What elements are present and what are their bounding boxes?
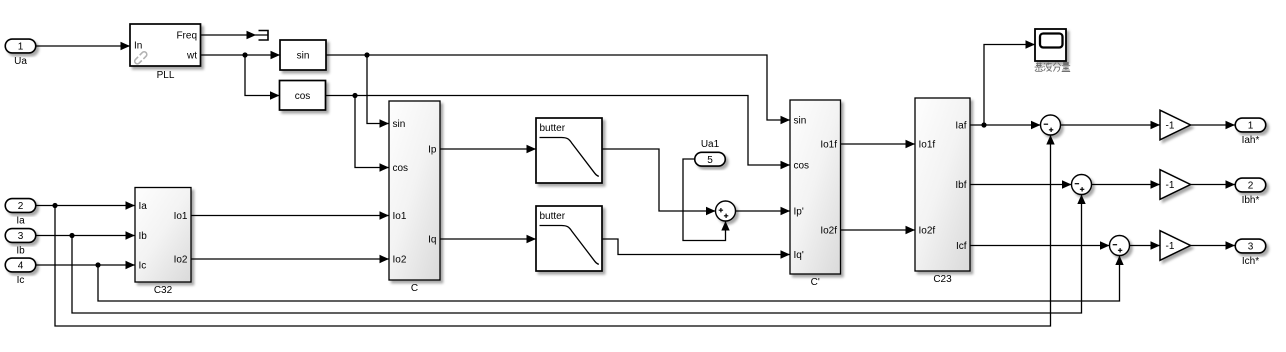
svg-text:5: 5: [707, 155, 713, 166]
svg-text:Ua: Ua: [14, 56, 27, 67]
svg-text:Freq: Freq: [176, 31, 197, 42]
subsystem C': [790, 100, 841, 274]
junction Ic branch: [95, 262, 100, 267]
gain gain2 (-1): [1160, 170, 1191, 200]
svg-text:Io2f: Io2f: [820, 226, 837, 237]
PLL block: [130, 24, 201, 66]
svg-text:Ip': Ip': [794, 207, 804, 218]
wire Ia feedback to sum1: [55, 135, 1051, 326]
svg-text:sin: sin: [297, 51, 310, 62]
wire sumA to Cp Ip: [736, 210, 791, 212]
junction Ia branch: [52, 203, 57, 208]
butter filter 2: [536, 206, 602, 271]
wire Ua to PLL: [36, 45, 131, 47]
output port 3 (Ich*): [1235, 239, 1266, 253]
wire butter2 to Cp Iq: [602, 239, 790, 255]
wire Ib to C32: [36, 235, 135, 237]
junction cos branch: [352, 93, 357, 98]
svg-text:C: C: [411, 283, 418, 294]
svg-text:cos: cos: [794, 161, 810, 172]
svg-text:Iah*: Iah*: [1242, 135, 1260, 146]
svg-text:4: 4: [18, 261, 24, 272]
subsystem C32: [135, 188, 191, 283]
wire C23 Ibf to sum2: [970, 184, 1072, 186]
gain gain1 (-1): [1160, 110, 1191, 140]
gain gain3 (-1): [1160, 231, 1191, 261]
svg-text:3: 3: [18, 231, 24, 242]
wire sum2 to gain2: [1092, 184, 1161, 186]
wire PLL Freq to terminator: [201, 34, 268, 36]
wire PLL wt to sin: [201, 54, 281, 56]
wire Ib feedback to sum2: [72, 195, 1082, 314]
wire C32 Io2 to C: [191, 258, 389, 260]
svg-text:Iq: Iq: [428, 235, 436, 246]
wire C23 Iaf to sum1: [970, 124, 1041, 126]
svg-text:Ibf: Ibf: [955, 180, 966, 191]
wire wt branch to cos: [245, 55, 280, 96]
input port 1 (Ua): [5, 39, 36, 53]
junction sin branch: [364, 52, 369, 57]
svg-text:cos: cos: [295, 91, 311, 102]
wire Ic feedback to sum3: [98, 256, 1120, 302]
svg-text:PLL: PLL: [157, 70, 175, 81]
svg-text:Io1: Io1: [174, 211, 188, 222]
sum block sum3: [1110, 236, 1130, 256]
wire C Iq to butter2: [440, 238, 536, 240]
svg-text:In: In: [134, 40, 142, 51]
svg-text:-1: -1: [1166, 121, 1175, 132]
subsystem C: [389, 101, 440, 280]
wire gain1 to out1: [1191, 124, 1236, 126]
wire Cp Io1f to C23: [841, 143, 916, 145]
subsystem C23: [915, 98, 970, 271]
svg-text:C23: C23: [933, 274, 952, 285]
junction Iaf branch: [981, 122, 986, 127]
svg-text:1: 1: [1248, 121, 1254, 132]
wire butter1 to sumA: [602, 149, 716, 211]
wire gain3 to out3: [1191, 245, 1236, 247]
svg-text:cos: cos: [393, 163, 409, 174]
input port 5 (Ua1): [695, 152, 726, 166]
output port 2 (Ibh*): [1235, 178, 1266, 192]
svg-text:Ia: Ia: [16, 216, 25, 227]
svg-text:Io1f: Io1f: [919, 140, 936, 151]
input port 4 (Ic): [5, 258, 36, 272]
svg-text:Ic: Ic: [17, 275, 25, 286]
butter filter 1: [536, 118, 602, 183]
sum block sum2: [1072, 175, 1092, 195]
wire sin branch to C sin: [367, 55, 389, 124]
svg-text:Ib: Ib: [16, 246, 25, 257]
wire C Ip to butter1: [440, 148, 536, 150]
junction wt branch: [242, 52, 247, 57]
scope block: [1035, 29, 1066, 61]
svg-text:butter: butter: [540, 123, 566, 134]
junction Ib branch: [69, 233, 74, 238]
svg-text:Icf: Icf: [956, 241, 967, 252]
svg-text:sin: sin: [393, 119, 406, 130]
broken link icon: [135, 52, 147, 64]
wire Iaf branch to scope: [984, 45, 1035, 126]
svg-text:C': C': [811, 277, 820, 288]
svg-text:Ia: Ia: [139, 201, 148, 212]
svg-text:Io1f: Io1f: [820, 140, 837, 151]
svg-text:wt: wt: [186, 51, 197, 62]
svg-text:Ibh*: Ibh*: [1242, 195, 1260, 206]
wire C32 Io1 to C: [191, 215, 389, 217]
wire Ua1 to sumA: [683, 159, 726, 241]
cos function block: [280, 81, 326, 111]
wire sin out to Cp sin: [326, 55, 790, 120]
svg-text:Ip: Ip: [428, 145, 437, 156]
svg-text:Ua1: Ua1: [701, 139, 720, 150]
svg-text:Iaf: Iaf: [955, 121, 966, 132]
wire cos branch to C cos: [355, 96, 389, 168]
wire gain2 to out2: [1191, 184, 1236, 186]
svg-text:-1: -1: [1166, 241, 1175, 252]
svg-text:Io2: Io2: [393, 255, 407, 266]
wire Cp Io2f to C23: [841, 229, 916, 231]
wire C23 Icf to sum3: [970, 245, 1110, 247]
svg-text:Iq': Iq': [794, 250, 804, 261]
sum block sumA: [716, 201, 736, 221]
output port 1 (Iah*): [1235, 118, 1266, 132]
input port 3 (Ib): [5, 229, 36, 243]
sum block sum1: [1041, 115, 1061, 135]
svg-text:Ich*: Ich*: [1242, 256, 1259, 267]
wire sum1 to gain1: [1061, 124, 1161, 126]
svg-text:Io1: Io1: [393, 211, 407, 222]
svg-text:2: 2: [1248, 181, 1254, 192]
input port 2 (Ia): [5, 199, 36, 213]
svg-text:sin: sin: [794, 116, 807, 127]
svg-text:1: 1: [18, 42, 24, 53]
wire Ic to C32: [36, 264, 135, 266]
wire sum3 to gain3: [1130, 245, 1161, 247]
svg-text:Io2f: Io2f: [919, 226, 936, 237]
svg-text:Io2: Io2: [174, 255, 188, 266]
sin function block: [280, 40, 326, 70]
svg-text:Ib: Ib: [139, 231, 148, 242]
terminator: [259, 31, 269, 41]
svg-text:butter: butter: [540, 211, 566, 222]
scope label 基波分量: [1035, 63, 1071, 72]
svg-text:C32: C32: [154, 285, 173, 296]
svg-text:2: 2: [18, 201, 24, 212]
wire cos out to Cp cos: [326, 96, 790, 166]
svg-text:3: 3: [1248, 242, 1254, 253]
svg-text:-1: -1: [1166, 180, 1175, 191]
wire Ia to C32: [36, 205, 135, 207]
svg-text:Ic: Ic: [139, 261, 147, 272]
